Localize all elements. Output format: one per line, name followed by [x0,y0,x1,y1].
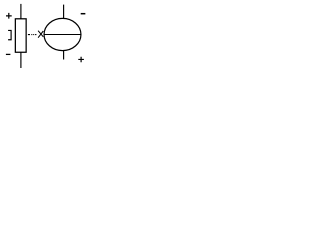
plus label (right source, bottom) [78,57,84,63]
arrow head [38,31,43,38]
wire (bottom lead of circle) [63,51,65,60]
wire (top lead of battery) [20,4,22,19]
wire (bottom lead of battery) [20,52,22,68]
minus label (left source, bottom) [6,53,10,55]
battery E1 (rectangle element) [15,19,26,52]
wire (top lead of circle) [63,5,65,19]
wire (diameter line inside circle) [44,34,81,36]
minus label (right source, top) [81,13,86,15]
arrow (dotted shaft, current direction) [28,34,37,36]
plus label (left source, top) [6,13,12,19]
source U1 (circle) [44,18,81,50]
label bracket [8,30,11,39]
